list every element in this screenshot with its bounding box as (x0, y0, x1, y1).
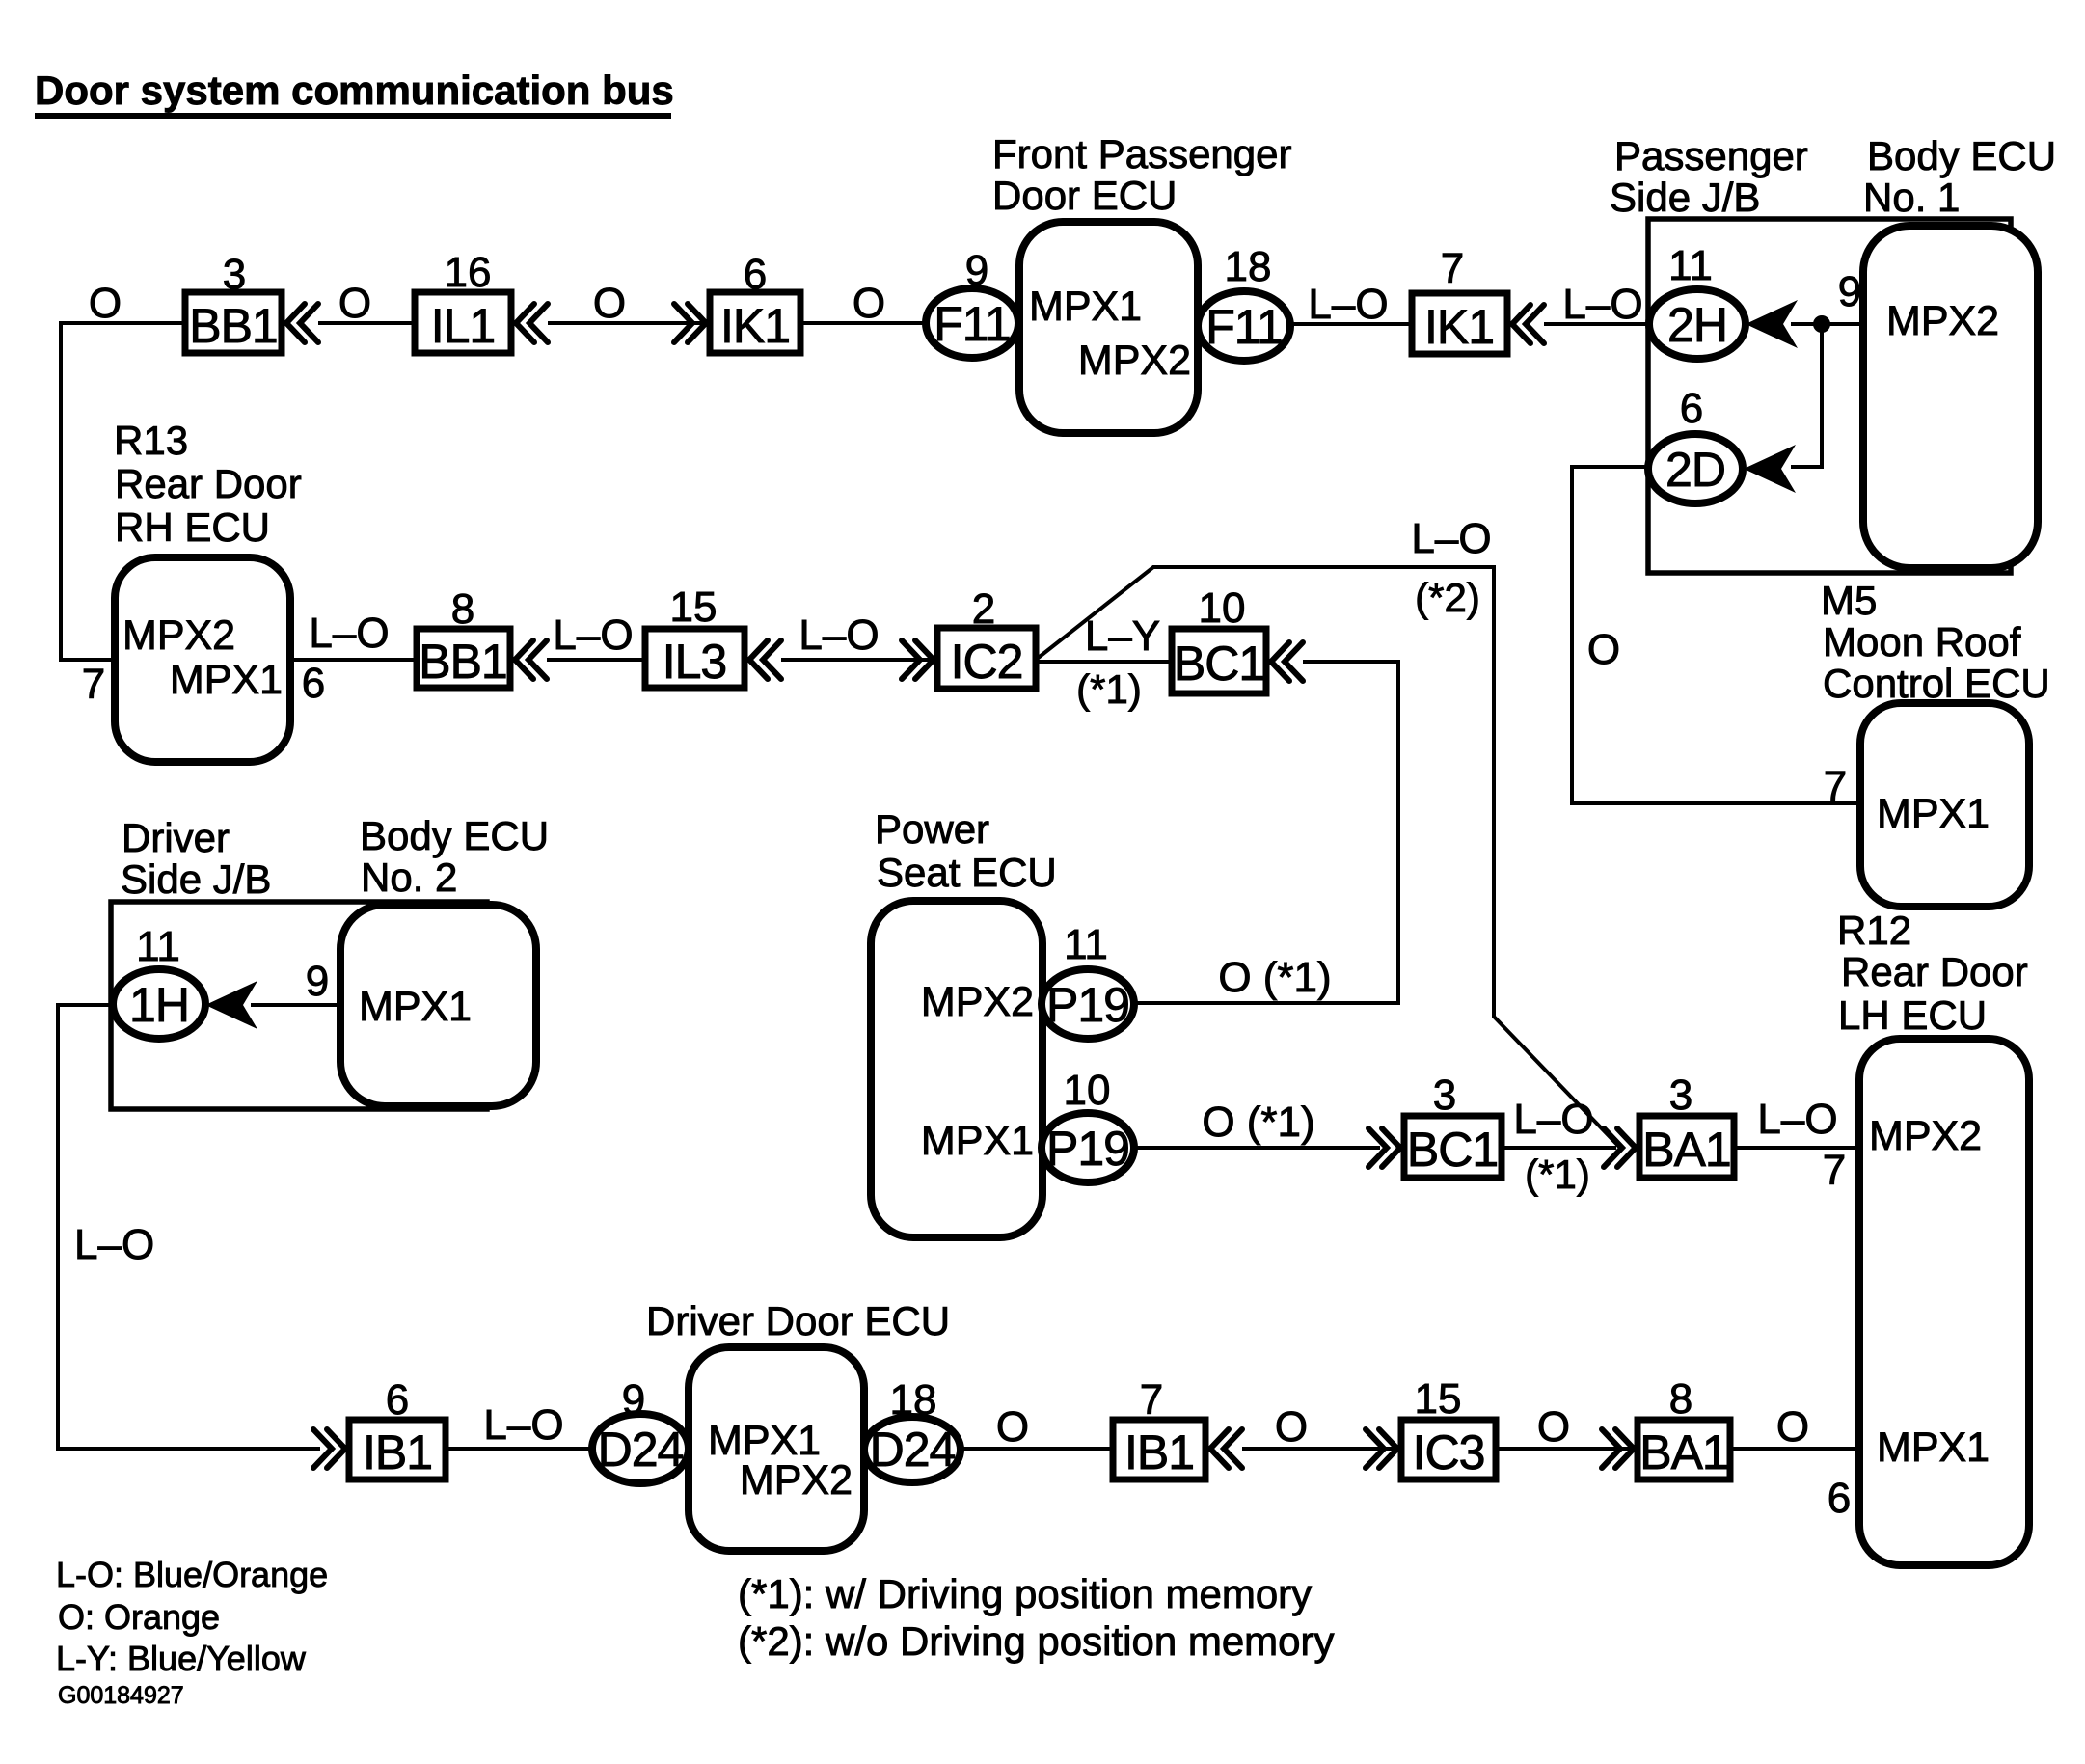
svg-text:2D: 2D (1665, 443, 1725, 497)
svg-text:O (*1): O (*1) (1202, 1099, 1314, 1146)
svg-text:O: O (996, 1403, 1029, 1451)
svg-text:MPX1: MPX1 (170, 657, 283, 703)
svg-text:6: 6 (1828, 1475, 1851, 1522)
svg-text:Driver: Driver (122, 815, 230, 860)
chevron at BB1 right (286, 304, 318, 342)
connector 2D (1648, 434, 1743, 503)
connector BC1 (pin 10) (1172, 629, 1266, 693)
svg-text:IK1: IK1 (1424, 300, 1494, 354)
connector IC2 (937, 628, 1036, 689)
wire IC3 to BA1 (1496, 1447, 1638, 1451)
svg-text:Rear Door: Rear Door (115, 461, 302, 506)
connector IL3 (645, 629, 745, 688)
svg-text:(*1): (*1) (1525, 1152, 1590, 1197)
svg-text:7: 7 (1441, 245, 1464, 292)
svg-text:O: O (1776, 1403, 1809, 1451)
svg-text:9: 9 (1838, 268, 1861, 315)
svg-text:L–O: L–O (1757, 1096, 1837, 1143)
wire P19 pin10 to BC1 (O *1) (1134, 1146, 1380, 1150)
svg-text:L–O: L–O (1513, 1096, 1593, 1143)
svg-text:R12: R12 (1837, 908, 1911, 953)
ECU box: Driver Door ECU (689, 1347, 864, 1551)
connector F11 (right of Front Passenger Door ECU) (1198, 291, 1290, 361)
svg-text:6: 6 (302, 660, 325, 707)
svg-text:IL3: IL3 (663, 635, 727, 689)
connector F11 (left of Front Passenger Door ECU) (926, 288, 1018, 358)
svg-text:10: 10 (1064, 1067, 1111, 1114)
svg-text:O: O (1537, 1403, 1570, 1451)
svg-text:Side J/B: Side J/B (121, 856, 271, 902)
chevron at BC1 left (1368, 1128, 1400, 1167)
ECU box: Rear Door LH ECU (1859, 1039, 2029, 1565)
connector D24 (left of Driver Door ECU) (592, 1414, 689, 1483)
wire IB1 to D24 (446, 1447, 592, 1451)
wire 2D to Moon Roof Control ECU pin 7 (O) (1572, 467, 1860, 803)
wire IK1 to 2H (1544, 322, 1651, 326)
svg-text:Body ECU: Body ECU (360, 813, 549, 858)
wire IC2 to BC1 (L-Y) (1036, 660, 1172, 664)
arrow into 2D (1744, 445, 1796, 493)
wire: IC2 diagonal to L-O (*2) bypass (1036, 567, 1620, 1148)
svg-text:O: O (593, 280, 626, 327)
junction box: Driver Side J/B (111, 902, 487, 1109)
svg-text:D24: D24 (598, 1423, 684, 1477)
svg-text:MPX1: MPX1 (1877, 1425, 1990, 1471)
svg-text:BB1: BB1 (189, 299, 278, 353)
svg-text:MPX2: MPX2 (1078, 338, 1191, 384)
connector IC3 (1401, 1420, 1496, 1479)
svg-text:9: 9 (306, 958, 329, 1005)
wire BB1 to IL3 (547, 658, 645, 662)
svg-text:Rear Door: Rear Door (1841, 949, 2028, 994)
svg-text:O: O (1587, 626, 1620, 673)
svg-text:Moon Roof: Moon Roof (1823, 619, 2021, 665)
svg-text:11: 11 (1668, 242, 1713, 289)
wire: 1H to bottom row (L-O vertical) (58, 1005, 320, 1449)
svg-text:2H: 2H (1667, 298, 1727, 352)
svg-text:RH ECU: RH ECU (115, 504, 270, 550)
wire D24 to IB1 (961, 1447, 1113, 1451)
wire 2H arrow to Body ECU No.1 pin 9 (1791, 322, 1863, 326)
svg-text:7: 7 (1823, 1147, 1846, 1194)
svg-text:O: O (89, 280, 122, 327)
wire BA1 to Rear Door LH ECU MPX2 pin 7 (1734, 1146, 1859, 1150)
wire BC1 to BA1 (L-O *1) (1502, 1146, 1616, 1150)
svg-text:L–O: L–O (74, 1221, 154, 1268)
wire RH ECU pin6 to BB1 (290, 658, 417, 662)
svg-text:Power: Power (875, 806, 989, 852)
svg-text:D24: D24 (870, 1423, 956, 1477)
wire BC1 pin10 to Power Seat ECU P19 pin 11 (1135, 662, 1398, 1003)
connector BA1 (pin 3) (1639, 1116, 1734, 1178)
svg-text:7: 7 (82, 661, 105, 708)
connector BB1 (top row) (185, 292, 282, 353)
connector BA1 (pin 8) (1638, 1420, 1730, 1479)
svg-text:BB1: BB1 (419, 635, 507, 689)
svg-text:MPX2: MPX2 (740, 1457, 853, 1504)
svg-text:(*2): (*2) (1415, 575, 1480, 620)
svg-text:1H: 1H (129, 978, 189, 1032)
svg-text:L–O: L–O (309, 610, 389, 657)
svg-text:Front Passenger: Front Passenger (992, 131, 1292, 176)
arrow into 1H (205, 981, 257, 1029)
svg-text:O: O (338, 280, 371, 327)
svg-text:L–O: L–O (483, 1401, 563, 1449)
svg-text:(*1): (*1) (1076, 666, 1142, 712)
svg-text:O: O (1275, 1403, 1308, 1451)
ECU box: Power Seat ECU (871, 901, 1042, 1237)
svg-text:Driver Door ECU: Driver Door ECU (646, 1298, 950, 1343)
svg-text:MPX1: MPX1 (1877, 791, 1990, 837)
svg-text:IC3: IC3 (1413, 1425, 1485, 1479)
svg-text:Passenger: Passenger (1614, 133, 1808, 178)
connector 2H (1649, 289, 1746, 359)
ECU box: Front Passenger Door ECU (1019, 222, 1198, 433)
svg-text:MPX2: MPX2 (921, 979, 1034, 1025)
svg-text:BC1: BC1 (1407, 1123, 1498, 1177)
svg-text:F11: F11 (1205, 300, 1282, 354)
svg-text:15: 15 (670, 583, 718, 631)
svg-text:MPX2: MPX2 (122, 612, 235, 659)
connector IL1 (415, 292, 511, 353)
svg-text:6: 6 (1680, 385, 1703, 432)
svg-text:Door ECU: Door ECU (992, 173, 1177, 218)
svg-text:MPX1: MPX1 (921, 1118, 1034, 1164)
chevron at IC2 left (902, 640, 934, 679)
svg-text:Door system communication bus: Door system communication bus (35, 68, 674, 113)
svg-text:P19: P19 (1046, 978, 1129, 1032)
svg-text:MPX1: MPX1 (359, 984, 472, 1030)
svg-text:P19: P19 (1046, 1122, 1129, 1176)
svg-text:11: 11 (1064, 921, 1108, 968)
svg-text:No. 2: No. 2 (361, 855, 457, 900)
wire: left vertical O bus (top row to Rear Door RH ECU pin 7) (61, 323, 185, 660)
svg-text:MPX2: MPX2 (1886, 298, 1999, 344)
svg-text:O: O (853, 280, 885, 327)
svg-text:M5: M5 (1821, 578, 1877, 623)
wire IL1 to IK1 (548, 321, 710, 325)
ECU box: Moon Roof Control ECU (1860, 703, 2029, 907)
svg-text:R13: R13 (114, 418, 188, 463)
connector 1H (113, 969, 205, 1039)
chevron at IC3 left (1366, 1429, 1397, 1468)
chevron at IL1 right (516, 304, 548, 342)
chevron at IK1 left (674, 304, 706, 342)
svg-text:L–O: L–O (1308, 281, 1388, 328)
chevron at IK1 right (1512, 305, 1544, 343)
connector IK1 (top row) (710, 292, 800, 353)
connector BB1 (second row) (417, 629, 510, 688)
svg-text:IC2: IC2 (951, 635, 1023, 689)
wire F11 to IK1 (1290, 322, 1412, 326)
wire IB1 to IC3 (1242, 1447, 1401, 1451)
chevron at BC1 right (1271, 642, 1303, 681)
chevron at IB1 left (313, 1429, 345, 1468)
ECU box: Body ECU No. 2 (340, 905, 536, 1106)
connector IK1 (right) (1412, 293, 1507, 354)
svg-text:G00184927: G00184927 (58, 1682, 184, 1709)
ECU box: Body ECU No. 1 (1863, 226, 2038, 568)
svg-text:IB1: IB1 (363, 1425, 432, 1479)
junction node (1813, 315, 1830, 333)
svg-text:Body ECU: Body ECU (1867, 133, 2056, 178)
svg-text:11: 11 (136, 923, 180, 970)
ECU box: Rear Door RH ECU (115, 557, 290, 762)
chevron at BA1 left (1604, 1128, 1636, 1167)
svg-text:L–Y: L–Y (1085, 612, 1160, 660)
svg-text:O: Orange: O: Orange (58, 1597, 220, 1637)
svg-text:Side J/B: Side J/B (1610, 175, 1760, 220)
connector IB1 (right) (1113, 1420, 1205, 1479)
svg-text:3: 3 (1433, 1072, 1456, 1119)
svg-text:IB1: IB1 (1124, 1425, 1194, 1479)
chevron at BA1 left (1602, 1429, 1634, 1468)
chevron at IB1 right (1210, 1429, 1242, 1468)
svg-text:Control ECU: Control ECU (1823, 661, 2050, 706)
connector D24 (right of Driver Door ECU) (864, 1417, 961, 1482)
svg-text:L–O: L–O (799, 611, 879, 659)
connector P19 (MPX2 pin 11) (1042, 969, 1134, 1039)
svg-text:BA1: BA1 (1642, 1123, 1731, 1177)
svg-text:O (*1): O (*1) (1218, 954, 1331, 1001)
svg-text:L-O: Blue/Orange: L-O: Blue/Orange (56, 1555, 328, 1594)
svg-text:(*2): w/o Driving position mem: (*2): w/o Driving position memory (738, 1618, 1335, 1664)
svg-text:L–O: L–O (1562, 281, 1642, 328)
svg-text:18: 18 (1225, 243, 1272, 290)
svg-text:LH ECU: LH ECU (1838, 992, 1987, 1038)
svg-text:15: 15 (1415, 1375, 1462, 1423)
wire BB1 to IL1 (318, 321, 415, 325)
wire junction down to 2D arrow (1791, 324, 1822, 467)
wire 1H arrow to Body ECU No.2 pin 9 (251, 1003, 340, 1007)
connector IB1 (left) (349, 1420, 446, 1479)
svg-text:MPX2: MPX2 (1869, 1113, 1982, 1159)
arrow into 2H (1746, 300, 1798, 348)
wire BA1 to Rear Door LH ECU MPX1 pin 6 (1730, 1447, 1859, 1451)
chevron at IL3 right (749, 640, 781, 679)
chevron at BB1 right (515, 640, 547, 679)
svg-text:IK1: IK1 (720, 299, 790, 353)
svg-text:L–O: L–O (553, 611, 633, 659)
svg-text:8: 8 (1669, 1375, 1692, 1423)
svg-text:IL1: IL1 (431, 299, 496, 353)
svg-text:Seat ECU: Seat ECU (877, 850, 1057, 895)
svg-text:BC1: BC1 (1174, 637, 1264, 691)
svg-text:MPX1: MPX1 (1029, 284, 1142, 330)
junction box: Passenger Side J/B (1648, 219, 2011, 573)
wire IL3 to IC2 (781, 658, 937, 662)
connector P19 (MPX1 pin 10) (1042, 1113, 1134, 1182)
connector BC1 (pin 3) (1404, 1116, 1502, 1178)
svg-text:F11: F11 (934, 297, 1010, 351)
svg-text:3: 3 (1669, 1072, 1692, 1119)
svg-text:7: 7 (1824, 763, 1847, 810)
svg-text:(*1): w/ Driving position memo: (*1): w/ Driving position memory (738, 1571, 1312, 1616)
svg-text:No. 1: No. 1 (1863, 175, 1960, 220)
wire IK1 to F11 (800, 321, 931, 325)
svg-text:10: 10 (1199, 584, 1246, 632)
svg-text:L–O: L–O (1411, 515, 1491, 562)
svg-text:BA1: BA1 (1639, 1425, 1728, 1479)
svg-text:L-Y: Blue/Yellow: L-Y: Blue/Yellow (56, 1639, 307, 1678)
